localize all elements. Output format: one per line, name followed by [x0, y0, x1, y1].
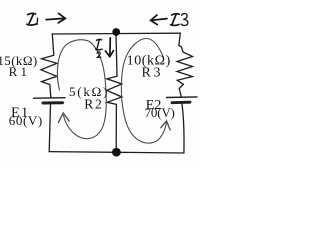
wire middle upper — [116, 34, 117, 76]
svg-text:60(V): 60(V) — [9, 113, 43, 128]
wire bottom — [49, 152, 184, 153]
current label I1 (handwritten) — [27, 13, 38, 25]
svg-text:R2: R2 — [84, 96, 103, 111]
resistor R1 — [41, 55, 57, 84]
wire right mid — [179, 84, 183, 97]
battery E2 — [167, 97, 198, 103]
right mesh loop arrow — [121, 39, 166, 144]
wire left mid — [50, 85, 51, 98]
node B (bottom junction) — [112, 148, 121, 157]
left mesh loop arrow — [57, 40, 106, 139]
wire left lower — [49, 105, 50, 152]
wire top — [52, 32, 180, 35]
wire middle lower — [115, 104, 117, 148]
battery E1 — [34, 98, 66, 103]
node A (top junction) — [112, 28, 120, 36]
svg-text:R1: R1 — [9, 64, 31, 79]
wire right upper — [179, 33, 183, 52]
wire right lower — [182, 104, 184, 153]
wire left upper — [52, 34, 54, 55]
resistor R2 — [107, 76, 122, 104]
arrow for I3 — [151, 15, 167, 25]
current label I3 (handwritten) — [171, 14, 188, 26]
arrow for I2 — [105, 38, 113, 57]
arrow for I1 — [46, 13, 65, 23]
svg-text:R3: R3 — [142, 66, 164, 81]
current label I2 (handwritten) — [96, 39, 103, 57]
resistor R3 — [177, 52, 193, 84]
svg-text:70(V): 70(V) — [145, 105, 175, 120]
